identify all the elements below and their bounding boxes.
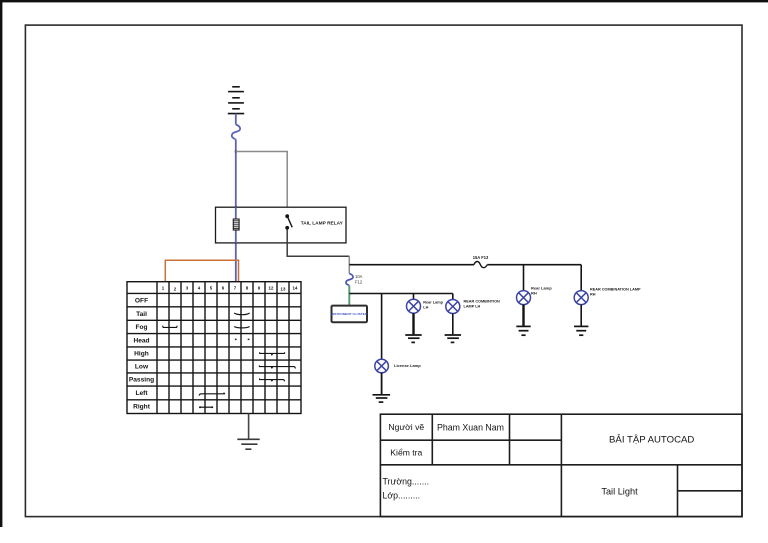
bus post-fuse to LH lamps xyxy=(349,293,453,295)
ground rear lamp RH xyxy=(516,326,530,335)
svg-text:13: 13 xyxy=(281,287,286,292)
lamp Rear Lamp RH xyxy=(517,291,531,305)
bus pre-fuse to RH lamps xyxy=(349,264,474,266)
svg-text:Left: Left xyxy=(135,390,148,397)
wire lamp LH to ground xyxy=(412,313,414,334)
lamp Rear Lamp LH xyxy=(407,299,421,313)
svg-text:OFF: OFF xyxy=(135,298,148,305)
relay switch blade xyxy=(287,217,292,228)
svg-text:Passing: Passing xyxy=(129,377,154,384)
wire drop rear combination lamp RH xyxy=(580,265,582,291)
wire lamp RH to ground xyxy=(522,305,524,326)
wire blue through relay xyxy=(235,207,237,243)
wire lamp to ground xyxy=(452,314,454,335)
svg-text:RH: RH xyxy=(590,292,596,296)
switch table grid xyxy=(127,282,301,414)
svg-text:15A F13: 15A F13 xyxy=(473,255,489,260)
fuse F13 15A (black squiggle) xyxy=(474,261,487,267)
table row labels xyxy=(129,298,154,411)
link Passing 9-11 xyxy=(260,378,285,381)
lamp Rear Combination Lamp LH xyxy=(446,300,460,314)
orange jumper wire col1 to col7 xyxy=(165,260,238,282)
fuse F12 10A (blue squiggle) xyxy=(346,274,353,286)
wire branch to relay switch (gray) xyxy=(236,152,287,210)
svg-text:INSTRUMENT CLUSTER: INSTRUMENT CLUSTER xyxy=(331,312,368,316)
battery BAT xyxy=(228,87,244,114)
ground rear combination LH xyxy=(445,335,461,342)
svg-text:RH: RH xyxy=(531,290,537,295)
link Tail 7-8 xyxy=(234,313,249,315)
svg-text:REAR COMBINTION: REAR COMBINTION xyxy=(464,300,501,304)
svg-text:Right: Right xyxy=(133,404,151,411)
link Fog 1-2 xyxy=(163,326,177,328)
wire drop license lamp xyxy=(381,294,383,360)
link High 9-11 xyxy=(260,352,285,355)
svg-text:Kiểm tra: Kiểm tra xyxy=(390,448,422,458)
relay switch contact bottom xyxy=(285,226,289,230)
relay coil xyxy=(233,219,239,230)
svg-text:12: 12 xyxy=(269,286,274,291)
svg-text:High: High xyxy=(134,351,149,358)
dot Head 8 xyxy=(248,339,250,340)
wire stub rear combination lamp LH xyxy=(452,294,454,300)
node battery branch xyxy=(235,150,237,152)
link Fog 7-8 xyxy=(234,327,249,328)
svg-text:License Lamp: License Lamp xyxy=(394,363,421,368)
svg-text:Trường.......: Trường....... xyxy=(383,476,430,486)
svg-text:Rear Lamp: Rear Lamp xyxy=(423,301,443,305)
wire lamp to ground xyxy=(580,305,582,326)
svg-text:Pham Xuan Nam: Pham Xuan Nam xyxy=(437,422,504,432)
instrument cluster box xyxy=(332,306,368,323)
lamp License Lamp xyxy=(375,359,389,373)
svg-text:BẢI TẬP AUTOCAD: BẢI TẬP AUTOCAD xyxy=(609,434,694,446)
svg-text:Tail Light: Tail Light xyxy=(601,487,638,497)
ground rear lamp LH xyxy=(405,335,421,342)
dot Head 7 xyxy=(235,339,237,340)
page outer border top xyxy=(0,0,768,2)
link Right 4-5 xyxy=(200,406,213,408)
wire fuse to instrument cluster (green) xyxy=(348,285,350,305)
wire table col8 to ground xyxy=(248,414,250,439)
svg-text:Tail: Tail xyxy=(136,311,147,318)
table column numbers xyxy=(162,286,298,292)
svg-text:F12: F12 xyxy=(355,279,363,284)
wire license lamp to ground xyxy=(381,373,383,394)
svg-text:TAIL LAMP RELAY: TAIL LAMP RELAY xyxy=(301,220,344,226)
wire fuse to relay coil to table col7 (blue) xyxy=(235,139,237,282)
fuse F11 (battery fuse, blue squiggle) xyxy=(232,125,240,140)
ground below table xyxy=(237,439,259,449)
page outer border left xyxy=(0,0,2,527)
wire down to fuse F12 (gray) xyxy=(348,256,350,273)
lamp Rear Combination Lamp RH xyxy=(574,291,588,305)
svg-text:14: 14 xyxy=(293,286,298,291)
svg-text:LAMP LH: LAMP LH xyxy=(464,304,481,308)
bus after fuse F13 xyxy=(487,264,581,266)
link Right end dots xyxy=(199,406,201,408)
wire relay output down and right xyxy=(287,230,349,257)
title block xyxy=(380,414,742,516)
relay box TAIL LAMP RELAY xyxy=(216,207,347,243)
relay switch contact top xyxy=(285,214,289,218)
link Low 9-12 xyxy=(259,365,295,368)
svg-text:Fog: Fog xyxy=(135,324,147,331)
link Left 4-6 xyxy=(199,393,225,396)
svg-text:Lớp.........: Lớp......... xyxy=(383,490,421,500)
svg-text:Low: Low xyxy=(135,364,149,371)
wire drop rear lamp RH xyxy=(523,265,525,291)
ground license lamp xyxy=(373,395,391,402)
wire stub rear lamp LH xyxy=(413,294,415,300)
svg-text:Người vẽ: Người vẽ xyxy=(388,422,424,432)
svg-text:LH: LH xyxy=(423,305,428,309)
svg-text:REAR COMBINATION LAMP: REAR COMBINATION LAMP xyxy=(590,288,641,292)
wire battery to fuse (blue) xyxy=(235,114,237,125)
svg-text:Head: Head xyxy=(133,337,149,344)
ground rear combination RH xyxy=(574,326,588,335)
